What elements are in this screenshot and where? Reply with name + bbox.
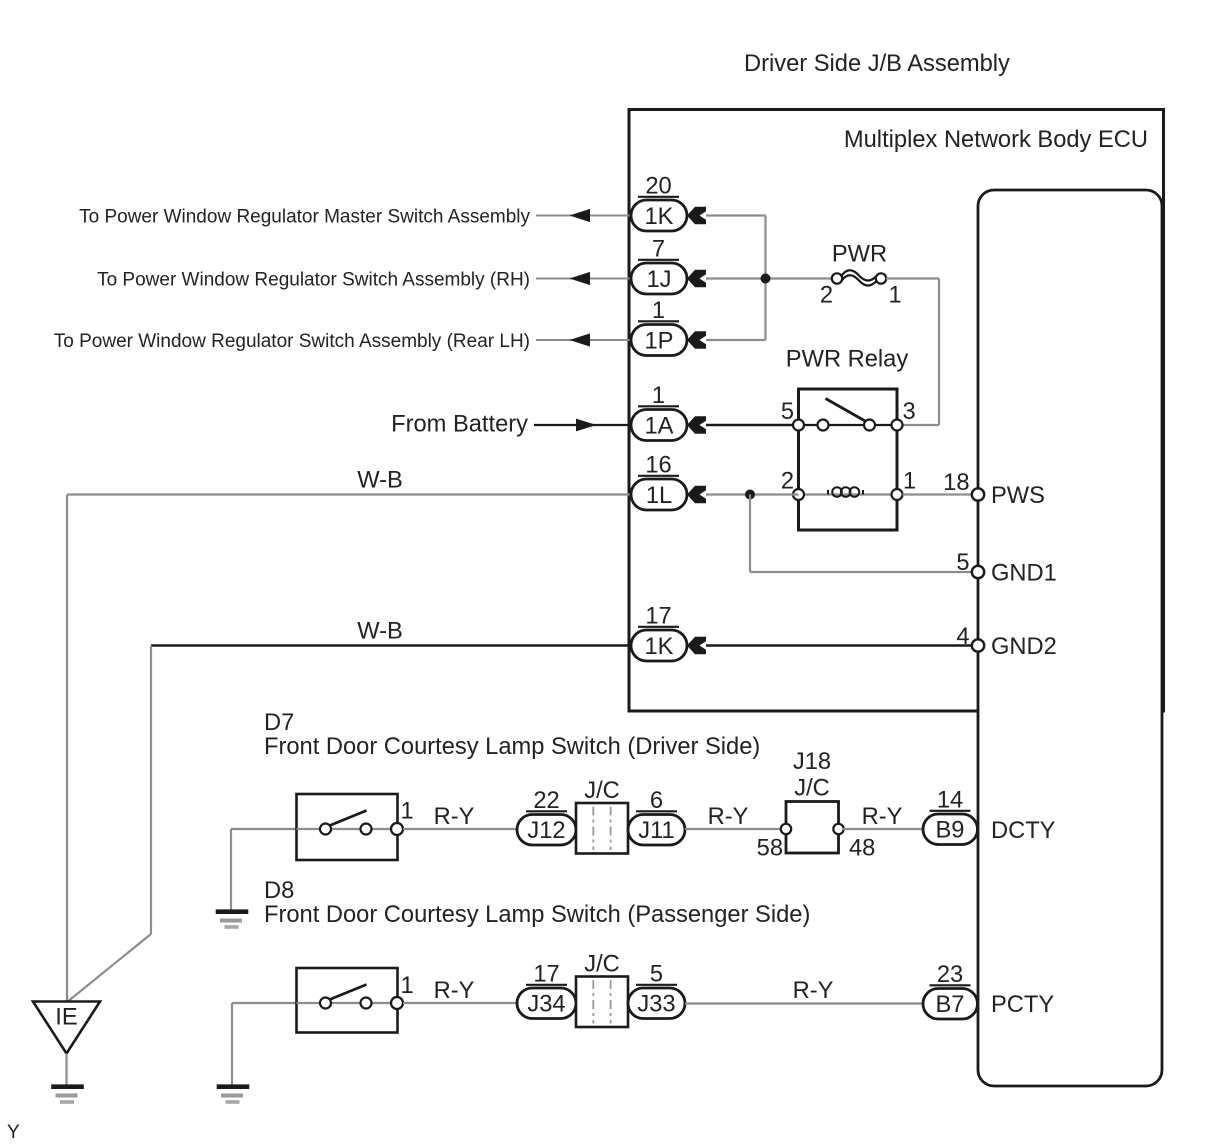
relay pin 3 [892,420,903,431]
svg-text:B7: B7 [936,992,965,1018]
switch D8 box [297,968,398,1033]
pin 1 label [638,405,679,407]
svg-text:R-Y: R-Y [708,804,749,830]
pin 20 label [638,196,679,198]
svg-text:18: 18 [943,470,969,496]
wire to connector at y=278.5 [536,278,631,280]
svg-text:58: 58 [757,836,783,862]
svg-text:Multiplex Network Body ECU: Multiplex Network Body ECU [844,127,1148,153]
relay coil wire [799,493,898,495]
svg-text:J33: J33 [637,992,675,1018]
svg-text:1: 1 [903,469,916,495]
svg-text:R-Y: R-Y [434,978,475,1004]
svg-text:16: 16 [645,453,671,479]
switch D8 blade [329,985,367,1001]
svg-text:Front Door Courtesy Lamp Switc: Front Door Courtesy Lamp Switch (Driver … [264,734,760,760]
svg-text:W-B: W-B [357,619,403,645]
svg-text:1L: 1L [646,483,672,509]
connector 1A pin 1 [631,410,687,441]
arrow left y=340 [570,333,591,346]
wire J18 to B9 [843,828,923,830]
junction node on 1J wire [761,274,771,284]
wire to connector at y=340 [536,339,631,341]
junction connector J/C box 1 [576,803,628,854]
ground D8 [217,1084,250,1089]
connector 1K pin 20 [631,200,687,231]
svg-text:J12: J12 [527,818,565,844]
connector symbol at 1K [687,637,706,654]
wire IE to ground [65,1054,67,1086]
svg-text:5: 5 [781,399,794,425]
svg-text:R-Y: R-Y [793,978,834,1004]
connector symbol at 1L [687,486,706,503]
svg-text:1J: 1J [646,267,671,293]
wire vertical from W-B lower [150,646,152,935]
arrow right From Battery [576,419,597,432]
svg-text:PWR: PWR [832,242,887,268]
svg-text:1: 1 [652,298,665,324]
svg-text:J11: J11 [638,818,674,844]
connector J11 pin 6 [628,815,685,846]
ECU pin 4 GND2 [972,639,984,651]
switch D7 pin 1 [391,823,403,835]
svg-text:GND1: GND1 [991,561,1057,587]
wire 1J to fuse [706,277,832,279]
wire From Battery [534,424,631,426]
wire junction down to GND1 [749,495,751,573]
svg-text:To Power Window Regulator Swit: To Power Window Regulator Switch Assembl… [54,331,530,352]
svg-text:23: 23 [937,962,963,988]
svg-text:1K: 1K [645,634,674,660]
connector J33 pin 5 [628,988,685,1019]
svg-text:48: 48 [849,836,875,862]
svg-text:1: 1 [401,973,414,999]
svg-text:W-B: W-B [357,468,403,494]
wire W-B to 1K 17 (horizontal) [151,644,631,646]
wire 1K 17 to GND2 [706,644,972,646]
connector symbol at 1J [687,270,706,287]
svg-text:J/C: J/C [584,778,620,804]
connector B7 pin 23 [923,989,978,1020]
svg-text:J18: J18 [793,749,831,775]
wire W-B to 1L (horizontal) [67,493,631,495]
wire vertical 1K-1P bus [764,216,766,341]
box Driver Side J/B Assembly [629,110,1164,712]
connector symbol at 1K [687,207,706,224]
svg-text:R-Y: R-Y [862,804,903,830]
ECU pin 18 PWS [972,488,984,500]
wire 1A to relay pin 5 [706,424,799,426]
connector B9 pin 14 [923,814,978,845]
wire D8 to J34 [403,1002,517,1004]
switch D7 wire [297,828,398,830]
connector 1K pin 17 [631,630,687,661]
fuse PWR element [841,270,877,280]
svg-text:20: 20 [645,174,671,200]
svg-text:Y: Y [7,1122,20,1143]
relay box [799,389,898,530]
wire D7 to J12 [403,828,517,830]
wire corner down to relay pin 3 [938,279,940,426]
connector J34 pin 17 [517,988,576,1019]
switch D7 contacts [320,824,331,835]
pin 7 label [638,259,679,261]
svg-text:17: 17 [645,604,671,630]
wire J11 to J18 [685,828,788,830]
wire fuse to corner [886,277,939,279]
connector 1P pin 1 [631,325,687,356]
svg-text:17: 17 [533,962,559,988]
wire W-B left vertical down to IE [66,495,68,1002]
ECU Multiplex Network Body ECU box [978,190,1162,1086]
wire 1K to vertical [706,214,766,216]
pin 1 label [638,320,679,322]
svg-text:PWS: PWS [991,483,1045,509]
relay switch blade [826,399,867,422]
svg-text:DCTY: DCTY [991,818,1056,844]
svg-text:1: 1 [652,383,665,409]
pin 17 label [638,626,679,628]
wire relay pin 1 to PWS [903,493,973,495]
svg-text:IE: IE [55,1005,77,1031]
J18 pin 58 [781,824,791,834]
svg-text:To Power Window Regulator Mast: To Power Window Regulator Master Switch … [79,207,530,228]
svg-text:1P: 1P [645,329,674,355]
svg-text:J/C: J/C [584,952,620,978]
svg-text:1: 1 [401,799,414,825]
arrow left y=278.5 [570,272,591,285]
relay coil [828,487,863,497]
switch D7 box [297,794,398,860]
svg-text:5: 5 [650,962,663,988]
relay switch contacts [818,420,829,431]
svg-text:3: 3 [903,399,916,425]
ground IE [51,1084,84,1089]
connector symbol at 1A [687,416,706,433]
svg-text:PWR Relay: PWR Relay [786,347,909,373]
ground D7 [216,909,249,914]
switch D8 pin 1 [391,997,403,1009]
svg-text:5: 5 [956,550,969,576]
svg-text:14: 14 [937,788,963,814]
switch D8 wire [297,1002,398,1004]
svg-text:7: 7 [652,237,665,263]
wire D7 switch to ground [231,828,297,830]
svg-text:To Power Window Regulator Swit: To Power Window Regulator Switch Assembl… [97,270,530,291]
wire J33 to B7 [685,1002,923,1004]
svg-text:D7: D7 [264,710,294,736]
connector symbol at 1P [687,331,706,348]
junction connector J/C box 2 [576,977,628,1028]
svg-text:1K: 1K [645,204,674,230]
svg-text:Driver Side J/B Assembly: Driver Side J/B Assembly [744,51,1010,77]
relay pin 5 [793,420,804,431]
svg-text:J34: J34 [527,992,565,1018]
junction connector J18 box [786,802,839,854]
svg-text:J/C: J/C [794,776,830,802]
svg-text:B9: B9 [936,818,965,844]
connector 1J pin 7 [631,263,687,294]
pin 16 label [638,475,679,477]
svg-text:D8: D8 [264,878,294,904]
svg-text:2: 2 [820,283,833,309]
junction node on 1L wire [745,490,755,500]
switch D7 blade [329,811,367,827]
svg-text:4: 4 [956,624,969,650]
arrow left y=215.5 [570,209,591,222]
switch D8 contacts [320,998,331,1009]
svg-text:R-Y: R-Y [434,804,475,830]
wire 1P to vertical [706,339,766,341]
relay switch contact wire [799,424,898,426]
ECU pin 5 GND1 [972,566,984,578]
relay pin 2 [793,489,804,500]
svg-text:1: 1 [889,283,902,309]
wire to connector at y=215.5 [536,215,631,217]
svg-text:6: 6 [650,788,663,814]
svg-text:1A: 1A [645,414,674,440]
svg-text:22: 22 [533,788,559,814]
wire 1L to relay pin 2 [706,493,799,495]
svg-text:2: 2 [781,469,794,495]
relay pin 1 [892,489,903,500]
ground point IE triangle [33,1002,100,1054]
svg-text:From Battery: From Battery [391,412,528,438]
svg-text:PCTY: PCTY [991,992,1054,1018]
svg-text:Front Door Courtesy Lamp Switc: Front Door Courtesy Lamp Switch (Passeng… [264,902,810,928]
connector J12 pin 22 [517,815,576,846]
connector 1L pin 16 [631,479,687,510]
wire diagonal to IE [67,934,152,1003]
J18 pin 48 [833,824,843,834]
wire D8 switch to ground [232,1002,297,1004]
svg-text:GND2: GND2 [991,634,1057,660]
